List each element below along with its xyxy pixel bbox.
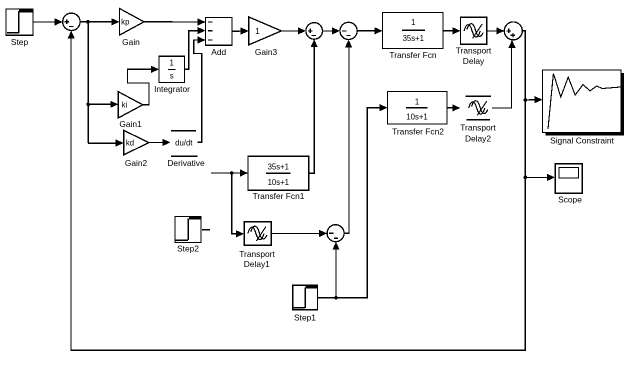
gain Gain1 (ki) xyxy=(118,92,143,129)
node to Scope xyxy=(524,176,528,180)
svg-text:35s+1: 35s+1 xyxy=(403,34,424,43)
step source Step xyxy=(6,9,33,47)
gain Gain (kp) xyxy=(120,9,145,48)
wire S1 to Gain xyxy=(80,18,119,25)
svg-text:10s+1: 10s+1 xyxy=(406,112,427,121)
wire Derivative to Add input 3 xyxy=(194,36,206,142)
wire Gain3 to S2 xyxy=(281,27,306,34)
node Step1 branch xyxy=(334,296,338,300)
svg-text:Transfer Fcn2: Transfer Fcn2 xyxy=(392,127,444,137)
wire Step1 to Transfer Fcn2 xyxy=(318,104,388,298)
wire into Transfer Fcn1 xyxy=(211,169,248,176)
wire Gain to Add input 1 xyxy=(144,18,206,25)
svg-text:10s+1: 10s+1 xyxy=(268,178,289,187)
svg-text:Transport: Transport xyxy=(456,46,492,56)
wire Transfer Fcn1 up to S2 xyxy=(309,39,318,173)
svg-text:Step1: Step1 xyxy=(294,312,316,322)
wire Step1 branch up to S5 xyxy=(332,242,339,298)
svg-text:Transfer Fcn: Transfer Fcn xyxy=(389,50,437,60)
integrator Integrator 1/s xyxy=(154,56,190,94)
svg-text:1: 1 xyxy=(411,18,415,27)
svg-text:Transport: Transport xyxy=(239,249,275,259)
svg-text:kp: kp xyxy=(121,18,130,27)
svg-text:Derivative: Derivative xyxy=(167,158,205,168)
svg-text:Delay: Delay xyxy=(463,56,485,66)
svg-text:Step2: Step2 xyxy=(177,244,199,254)
node to Gain1 xyxy=(86,103,90,107)
wire Step2 output stub xyxy=(202,229,210,231)
gain Gain2 (kd) xyxy=(124,130,149,168)
wire Transport Delay to S4 xyxy=(487,27,505,34)
svg-text:35s+1: 35s+1 xyxy=(268,162,289,171)
transport delay Transport Delay2 xyxy=(460,96,496,143)
sum junction S4 xyxy=(504,22,522,40)
wire to Signal Constraint xyxy=(525,96,542,103)
svg-text:1: 1 xyxy=(415,97,419,106)
svg-text:Transfer Fcn1: Transfer Fcn1 xyxy=(253,191,305,201)
svg-text:Scope: Scope xyxy=(558,195,582,205)
wire branch down to Gain1 and Gain2 xyxy=(88,22,123,147)
wire Transfer Fcn to Transport Delay xyxy=(443,27,461,34)
svg-text:Delay1: Delay1 xyxy=(244,259,270,269)
step source Step1 xyxy=(293,285,318,322)
svg-text:Transport: Transport xyxy=(460,123,496,133)
wire S5 up to S3 xyxy=(344,40,352,234)
node to Signal Constraint xyxy=(524,98,528,102)
svg-text:ki: ki xyxy=(122,101,128,110)
scope block Scope xyxy=(555,164,582,205)
sum junction S2 xyxy=(306,23,323,40)
node Transfer Fcn1 input branch xyxy=(230,171,234,175)
sum junction S5 xyxy=(327,225,344,242)
wire S3 to Transfer Fcn xyxy=(357,27,382,34)
svg-text:Add: Add xyxy=(211,47,226,57)
wire Add to Gain3 xyxy=(232,27,249,34)
wire Transport Delay1 to S5 xyxy=(271,230,327,237)
wire Transport Delay2 up to S4 xyxy=(492,40,516,108)
node after S1 xyxy=(86,20,90,24)
svg-text:Integrator: Integrator xyxy=(154,84,190,94)
wire Gain2 to Derivative xyxy=(149,139,171,146)
transfer function Transfer Fcn1 (35s+1)/(10s+1) xyxy=(248,156,309,201)
transport delay Transport Delay1 xyxy=(239,222,275,270)
sum block Add xyxy=(206,18,233,58)
wire Gain1 to Integrator xyxy=(128,66,160,105)
svg-text:kd: kd xyxy=(126,138,134,147)
svg-text:du/dt: du/dt xyxy=(175,138,193,147)
transfer function Transfer Fcn 1/(35s+1) xyxy=(383,13,444,61)
wire to Scope xyxy=(525,174,555,181)
sum junction S1 xyxy=(63,13,80,30)
svg-text:Gain1: Gain1 xyxy=(119,119,142,129)
svg-text:Gain2: Gain2 xyxy=(125,158,148,168)
wire S2 to S3 xyxy=(323,27,341,34)
transport delay Transport Delay xyxy=(456,17,492,66)
step source Step2 xyxy=(175,217,201,254)
wire Integrator to Add input 2 xyxy=(185,27,206,69)
gain Gain3 (1) xyxy=(249,17,282,57)
svg-text:1: 1 xyxy=(255,26,260,36)
svg-text:1: 1 xyxy=(170,59,174,68)
transfer function Transfer Fcn2 1/(10s+1) xyxy=(388,92,448,137)
wire Transfer Fcn2 to Transport Delay2 xyxy=(447,104,460,111)
sum junction S3 xyxy=(340,22,357,39)
derivative Derivative du/dt xyxy=(167,131,205,168)
svg-text:Signal Constraint: Signal Constraint xyxy=(550,135,614,145)
svg-text:Gain: Gain xyxy=(122,37,140,47)
wire Step to S1 xyxy=(33,18,63,25)
wire S4 output feedback loop to S1 xyxy=(68,31,526,351)
scope-plot block Signal Constraint xyxy=(543,70,625,145)
svg-text:Delay2: Delay2 xyxy=(465,134,491,144)
svg-text:s: s xyxy=(170,72,174,81)
svg-text:Step: Step xyxy=(11,37,29,47)
svg-text:Gain3: Gain3 xyxy=(255,47,278,57)
wire branch to Transport Delay1 xyxy=(232,173,244,237)
